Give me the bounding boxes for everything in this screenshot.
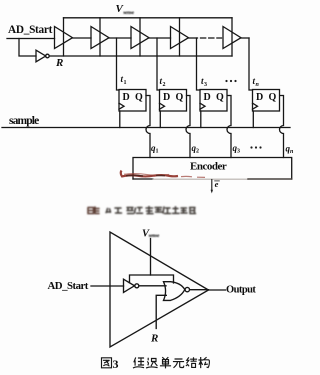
wire AD_Start input — [7, 38, 55, 40]
label t1 — [121, 74, 127, 86]
delay cell triangle outline — [110, 232, 209, 347]
svg-text:3: 3 — [237, 149, 240, 155]
wire tap tn to FF4 — [249, 38, 253, 90]
wire q1 FF1 to encoder — [146, 96, 150, 158]
wire clock FF3 — [200, 111, 202, 128]
svg-text:AD_Start: AD_Start — [8, 24, 53, 36]
label q3 — [233, 143, 241, 155]
inverter U0 (reset generator) — [36, 50, 46, 62]
svg-text:2: 2 — [163, 82, 166, 88]
svg-text:n: n — [256, 82, 260, 88]
svg-text:Q: Q — [176, 92, 184, 103]
wire buffer2 to buffer3 (node t1) — [109, 37, 131, 39]
flip-flop FF1 — [119, 90, 146, 112]
delay buffer 3 — [131, 27, 149, 49]
wire continuation dashes — [201, 37, 222, 39]
svg-text:Q: Q — [216, 92, 224, 103]
svg-text:sense: sense — [123, 10, 134, 16]
wire inverter to gate input — [139, 285, 166, 287]
net V_sense rail — [64, 17, 233, 19]
svg-text:3: 3 — [113, 357, 119, 371]
wire tap t2 to FF2 — [157, 38, 160, 90]
caption figure 3 — [102, 357, 210, 371]
encoder output arrow — [211, 180, 213, 192]
wire V-R feed buffer n — [231, 18, 233, 56]
wire output — [209, 289, 226, 291]
caption char chi — [147, 358, 157, 368]
svg-text:D: D — [204, 92, 211, 103]
svg-text:2: 2 — [196, 149, 199, 155]
svg-text:R: R — [55, 57, 63, 69]
NOR gate U3 — [164, 282, 185, 301]
wire gate output to apex — [190, 289, 209, 291]
svg-text:sample: sample — [9, 115, 39, 127]
label q2 — [192, 143, 200, 155]
red pen underline mark — [121, 171, 205, 178]
label e-bar — [215, 179, 219, 189]
label t3 — [201, 76, 207, 88]
delay buffer 1 — [55, 27, 73, 49]
caption char yuan — [174, 359, 184, 368]
svg-text:1: 1 — [124, 80, 127, 86]
wire q3 FF3 to encoder — [227, 96, 231, 158]
wire V-R feed buffer4 — [179, 18, 181, 56]
encoder box — [133, 158, 292, 180]
caption char tu — [102, 358, 112, 368]
svg-text:Output: Output — [226, 285, 256, 296]
caption char yan — [134, 358, 144, 368]
svg-text:D: D — [123, 92, 130, 103]
wire buffer1 to buffer2 — [73, 37, 92, 39]
svg-text:1: 1 — [156, 149, 159, 155]
wire V-R feed buffer1 — [63, 18, 65, 56]
label t2 — [160, 76, 166, 88]
wire AD_Start to inverter — [91, 285, 124, 287]
caption char gou — [199, 358, 209, 368]
inverter U2 — [124, 279, 135, 292]
caption char jie — [186, 358, 196, 368]
wire clock FF1 — [119, 111, 121, 128]
svg-text:AD_Start: AD_Start — [48, 280, 89, 292]
wire buffer4 output (node t3) — [189, 37, 198, 39]
flip-flop FF4 — [253, 90, 280, 112]
net R distribution line — [49, 55, 232, 57]
net sample line — [2, 127, 290, 129]
ellipsis between t3 and tn — [225, 80, 236, 82]
wire buffer3 to buffer4 (node t2) — [149, 37, 171, 39]
label qn — [286, 144, 295, 156]
label tn — [253, 76, 260, 88]
wire branch to reset inverter — [19, 39, 36, 57]
svg-text:R: R — [150, 333, 158, 345]
wire buffer n output (node tn) — [241, 37, 249, 39]
wire tap t3 to FF3 — [197, 38, 201, 90]
wire clock FF2 — [159, 111, 161, 128]
wire V_sense down — [150, 239, 152, 276]
wire V-R feed buffer3 — [139, 18, 141, 56]
flip-flop FF2 — [160, 90, 187, 112]
delay buffer 2 — [91, 27, 109, 49]
caption figure2 (blurred illegible) — [88, 207, 196, 214]
wire tap t1 to FF1 — [117, 38, 120, 90]
wire q2 FF2 to encoder — [186, 96, 190, 158]
wire R up to gate — [156, 295, 166, 328]
caption char dan — [161, 358, 171, 368]
label q1 — [151, 143, 159, 155]
label V_sense (fig3) — [142, 228, 160, 239]
wire clock FF4 — [252, 111, 254, 128]
delay buffer 4 — [171, 27, 189, 49]
power bar to inverter and gate — [130, 275, 174, 283]
svg-text:D: D — [256, 92, 263, 103]
svg-text:3: 3 — [204, 82, 207, 88]
flip-flop FF3 — [200, 90, 227, 112]
delay buffer n — [223, 27, 241, 49]
svg-text:Encoder: Encoder — [190, 160, 227, 172]
svg-text:D: D — [163, 92, 170, 103]
wire V-R feed buffer2 — [99, 18, 101, 56]
svg-text:Q: Q — [135, 92, 143, 103]
svg-text:n: n — [290, 149, 294, 155]
wire qn FF4 to encoder — [280, 96, 284, 158]
svg-text:Q: Q — [269, 92, 277, 103]
ellipsis between q3 and qn — [250, 146, 261, 148]
